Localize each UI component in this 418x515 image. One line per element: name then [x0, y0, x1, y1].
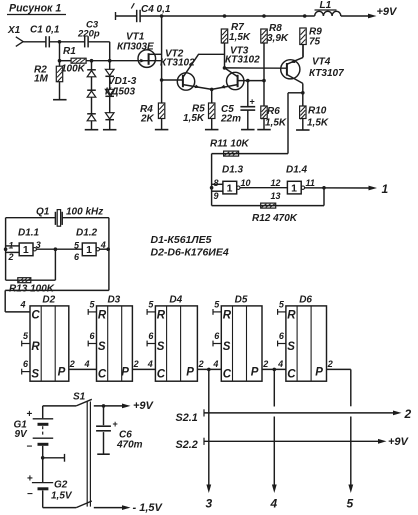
svg-text:10: 10 — [241, 178, 251, 188]
svg-text:R6: R6 — [267, 106, 280, 117]
svg-text:3,9K: 3,9K — [267, 33, 289, 44]
svg-text:22m: 22m — [220, 114, 241, 125]
svg-text:D1.2: D1.2 — [76, 228, 98, 239]
svg-text:КТ3102: КТ3102 — [225, 55, 260, 66]
svg-text:4: 4 — [212, 359, 218, 369]
svg-text:R13 100K: R13 100K — [9, 284, 55, 295]
svg-text:+: + — [250, 97, 255, 107]
svg-text:S2.2: S2.2 — [176, 439, 198, 451]
svg-text:D6: D6 — [299, 295, 312, 306]
svg-text:X1: X1 — [7, 25, 21, 36]
svg-text:2: 2 — [327, 359, 333, 369]
svg-text:D2: D2 — [42, 295, 55, 306]
svg-text:4: 4 — [270, 497, 278, 511]
svg-text:D2-D6-К176ИЕ4: D2-D6-К176ИЕ4 — [151, 247, 229, 259]
svg-text:P: P — [315, 367, 323, 379]
svg-text:100K: 100K — [61, 64, 86, 75]
svg-text:1,5K: 1,5K — [229, 32, 251, 43]
svg-text:S: S — [157, 341, 165, 353]
svg-text:8: 8 — [214, 178, 219, 188]
svg-text:−: − — [27, 489, 33, 500]
svg-text:+: + — [27, 409, 33, 420]
svg-text:G2: G2 — [54, 480, 68, 491]
svg-text:13: 13 — [271, 191, 281, 201]
svg-text:2: 2 — [69, 359, 75, 369]
svg-text:S: S — [98, 341, 106, 353]
svg-text:+9V: +9V — [388, 436, 410, 448]
svg-text:1,5K: 1,5K — [183, 113, 205, 124]
svg-text:9: 9 — [214, 191, 219, 201]
svg-text:D1.3: D1.3 — [222, 165, 244, 176]
svg-text:1: 1 — [86, 244, 92, 256]
svg-text:R: R — [157, 309, 166, 321]
svg-text:C: C — [98, 369, 107, 381]
svg-text:P: P — [251, 367, 259, 379]
svg-text:75: 75 — [309, 37, 321, 48]
svg-text:КТ3107: КТ3107 — [309, 68, 344, 79]
svg-text:4: 4 — [20, 299, 26, 309]
svg-text:R: R — [31, 341, 40, 353]
svg-text:R12 470K: R12 470K — [252, 213, 298, 224]
svg-text:1: 1 — [291, 183, 297, 195]
svg-text:470m: 470m — [116, 440, 143, 451]
svg-text:2: 2 — [404, 407, 412, 421]
svg-text:- 1,5V: - 1,5V — [133, 502, 164, 514]
svg-text:1: 1 — [227, 183, 233, 195]
svg-text:12: 12 — [271, 178, 281, 188]
svg-text:9V: 9V — [15, 429, 29, 440]
svg-text:5: 5 — [347, 497, 354, 511]
svg-text:11: 11 — [306, 178, 315, 188]
svg-text:C1 0,1: C1 0,1 — [30, 25, 60, 36]
svg-text:2: 2 — [198, 359, 204, 369]
svg-text:−: − — [27, 442, 33, 453]
svg-text:220p: 220p — [77, 29, 100, 40]
svg-text:4: 4 — [147, 359, 153, 369]
svg-text:D1.1: D1.1 — [18, 228, 40, 239]
svg-text:2: 2 — [133, 359, 139, 369]
svg-text:S: S — [31, 369, 39, 381]
svg-text:2: 2 — [8, 252, 14, 262]
svg-text:Q1: Q1 — [36, 207, 50, 218]
svg-text:100 kHz: 100 kHz — [66, 207, 103, 218]
svg-text:D4: D4 — [169, 295, 182, 306]
svg-text:1,5K: 1,5K — [265, 118, 287, 129]
svg-text:P: P — [186, 367, 194, 379]
svg-text:1,5V: 1,5V — [51, 491, 73, 502]
svg-text:4: 4 — [84, 359, 90, 369]
svg-text:R: R — [223, 309, 232, 321]
svg-text:1: 1 — [382, 182, 389, 196]
svg-text:1M: 1M — [34, 74, 49, 85]
svg-text:VT4: VT4 — [312, 57, 331, 68]
svg-text:D3: D3 — [107, 295, 120, 306]
svg-text:C4 0,1: C4 0,1 — [141, 4, 171, 15]
svg-text:C: C — [287, 369, 296, 381]
svg-text:R11 10K: R11 10K — [210, 139, 250, 150]
svg-text:1,5K: 1,5K — [307, 118, 329, 129]
svg-text:S1: S1 — [73, 392, 86, 403]
svg-text:КТ3102: КТ3102 — [160, 58, 195, 69]
svg-text:3: 3 — [206, 497, 213, 511]
svg-text:+9V: +9V — [133, 400, 155, 412]
svg-text:D1-К561ЛЕ5: D1-К561ЛЕ5 — [151, 234, 212, 246]
svg-text:P: P — [121, 367, 129, 379]
svg-text:КД503: КД503 — [105, 87, 135, 98]
svg-text:P: P — [58, 367, 66, 379]
svg-text:+: + — [113, 419, 118, 429]
svg-text:VD1-3: VD1-3 — [108, 76, 137, 87]
svg-text:КП303Е: КП303Е — [117, 42, 154, 53]
svg-text:Рисунок 1: Рисунок 1 — [9, 3, 61, 15]
svg-text:2: 2 — [262, 359, 268, 369]
svg-text:D1.4: D1.4 — [286, 165, 308, 176]
svg-text:S2.1: S2.1 — [176, 412, 198, 424]
svg-text:1: 1 — [9, 241, 14, 251]
svg-text:2K: 2K — [140, 114, 155, 125]
svg-text:R: R — [287, 309, 296, 321]
svg-text:D5: D5 — [235, 295, 248, 306]
svg-text:C: C — [223, 369, 232, 381]
svg-text:+9V: +9V — [377, 6, 399, 18]
svg-text:L1: L1 — [320, 0, 332, 11]
svg-text:C: C — [157, 369, 166, 381]
svg-text:1: 1 — [23, 244, 29, 256]
svg-text:R10: R10 — [308, 106, 327, 117]
svg-text:S: S — [287, 341, 295, 353]
svg-text:R: R — [98, 309, 107, 321]
svg-text:R1: R1 — [63, 46, 76, 57]
svg-text:C: C — [31, 309, 40, 321]
svg-text:4: 4 — [277, 359, 283, 369]
svg-text:S: S — [223, 341, 231, 353]
